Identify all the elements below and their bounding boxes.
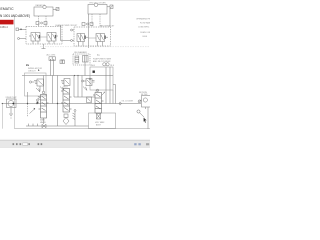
svg-text:FILTER: FILTER — [141, 94, 148, 96]
svg-text:CIRCUIT: CIRCUIT — [28, 70, 37, 72]
svg-text:TELE: TELE — [63, 87, 68, 89]
svg-text:HYD OIL COOLER: HYD OIL COOLER — [90, 2, 107, 4]
svg-text:COND SPEC: COND SPEC — [138, 26, 150, 28]
svg-text:UNLK: UNLK — [90, 65, 96, 67]
svg-text:SCHEMATIC: SCHEMATIC — [0, 7, 14, 11]
svg-text:FLOW RATE: FLOW RATE — [140, 21, 150, 24]
svg-text:JIB CHAMBER: JIB CHAMBER — [74, 51, 87, 54]
svg-text:CASE: CASE — [142, 35, 148, 38]
svg-text:AND JIB CYLINDER: AND JIB CYLINDER — [93, 60, 111, 63]
svg-text:HYD TANK: HYD TANK — [95, 121, 105, 124]
svg-text:VALVE: VALVE — [40, 121, 47, 124]
svg-text:OIL COOLER: OIL COOLER — [122, 100, 134, 102]
svg-text:FAN DRIVE CKT: FAN DRIVE CKT — [100, 25, 115, 28]
svg-text:RADIATOR: RADIATOR — [36, 4, 46, 7]
svg-text:DRAIN LINE: DRAIN LINE — [140, 31, 150, 34]
svg-text:ACC CHG: ACC CHG — [47, 53, 56, 56]
svg-text:4150-4: 4150-4 — [0, 26, 8, 29]
svg-text:(S/N 1001 AND ABOVE): (S/N 1001 AND ABOVE) — [0, 14, 30, 18]
svg-text:STEER PUMP: STEER PUMP — [6, 97, 18, 99]
svg-text:CHARGE PUMP CIRCUIT: CHARGE PUMP CIRCUIT — [55, 24, 78, 27]
svg-text:ASSY: ASSY — [96, 124, 102, 127]
svg-text:OPERATING PRES: OPERATING PRES — [136, 17, 150, 20]
